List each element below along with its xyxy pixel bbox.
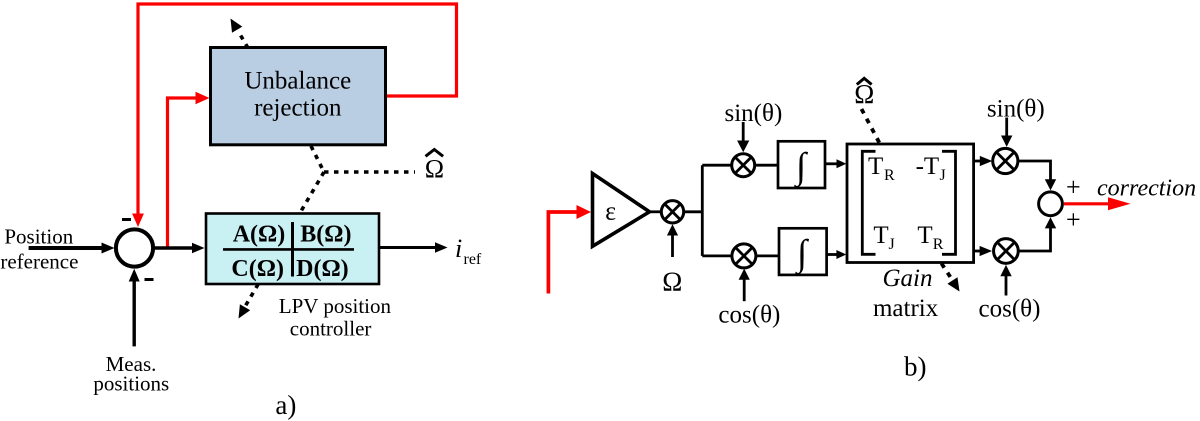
svg-text:Ω: Ω [662,266,682,296]
arrow: gain matrix to M5 [974,250,981,253]
svg-text:Unbalance: Unbalance [244,68,351,95]
red arrowhead into summing junction (down) [132,214,144,228]
arrow: cos(theta) into M3 [743,278,746,301]
wire: red correction output [1064,202,1112,205]
svg-text:sin(θ): sin(θ) [724,100,782,127]
svg-text:rejection: rejection [254,95,342,122]
svg-text:D(Ω): D(Ω) [296,256,349,282]
dashed arrow from unbalance box top (up-left) [238,31,248,48]
svg-text:+: + [1066,173,1081,202]
minus sign at meas input [145,278,154,281]
wire: position reference input [29,246,103,250]
svg-text:R: R [884,167,895,184]
multiplier M5 (cos out) [994,239,1019,264]
svg-text:sin(θ): sin(θ) [987,95,1045,122]
arrow: integrator 2 to gain matrix [827,253,839,256]
svg-text:i: i [455,234,462,263]
svg-text:cos(θ): cos(θ) [718,301,780,328]
svg-text:T: T [873,222,888,249]
multiplier M1 [661,201,683,223]
wire: M5 to summing junction b [1018,226,1050,251]
svg-text:∫: ∫ [793,146,808,188]
wire: M2 to integrator 1 [755,164,778,167]
svg-text:T: T [917,222,932,249]
matrix bracket right [942,151,956,254]
svg-text:R: R [933,236,944,253]
svg-text:ε: ε [605,197,616,226]
svg-text:C(Ω): C(Ω) [231,256,284,282]
arrow: integrator 1 to gain matrix [825,162,839,165]
dashed arrow: omega-hat into gain matrix [862,109,881,144]
multiplier M2 (sin branch) [732,154,755,177]
wire: triangle to multiplier M1 [650,210,662,213]
arrow: sin(theta) into M4 [1005,118,1008,139]
svg-text:cos(θ): cos(θ) [979,296,1041,323]
wire: i_ref output [379,246,436,249]
svg-text:matrix: matrix [873,295,939,322]
arrow: cos(theta) into M5 [1005,272,1008,296]
wire: red tap from error signal up into unbalance input [168,98,197,248]
block: Unbalance rejection [211,48,386,145]
wire: red feedback loop from unbalance output around top to summing junction [138,4,457,215]
svg-text:B(Ω): B(Ω) [300,222,351,248]
summing junction a [116,229,153,266]
multiplier M3 (cos branch) [732,244,756,268]
block: gain matrix [847,144,974,263]
wire: error to LPV controller [153,246,193,249]
svg-text:J: J [940,167,946,184]
svg-text:A(Ω): A(Ω) [233,222,286,248]
svg-text:b): b) [904,352,927,382]
svg-text:positions: positions [93,372,169,396]
svg-text:a): a) [275,390,296,420]
block: integrator 1 [778,141,825,188]
svg-text:-T: -T [916,153,940,180]
svg-text:J: J [889,236,895,253]
wire: M3 to integrator 2 [756,254,779,257]
wire: M4 to summing junction b [1018,161,1051,182]
svg-text:Position: Position [4,225,73,249]
op-amp: epsilon gain triangle [593,174,650,247]
svg-text:controller: controller [290,317,372,341]
svg-text:∫: ∫ [794,233,809,275]
wire: measured positions input (up) [132,280,135,346]
block: LPV position controller [206,214,379,285]
wire: red input (b) [548,212,578,294]
svg-text:T: T [868,153,883,180]
dashed net: Y junction to omega-hat and down through LPV box [311,146,324,172]
arrow: gain matrix to M4 [974,160,981,163]
dashed arrow: gain scheduling output [942,264,952,279]
svg-text:Ω: Ω [425,155,444,184]
svg-text:reference: reference [0,249,78,273]
multiplier M4 (sin out) [993,148,1018,173]
minus sign at red input [122,218,131,221]
wire+arrow: Omega input to M1 [671,234,674,257]
svg-text:+: + [1066,205,1081,234]
red arrowhead into unbalance box (right) [196,92,210,105]
wire: branch node [684,210,703,213]
summing junction b [1039,192,1063,216]
arrow: sin(theta) into M2 [742,122,745,143]
svg-text:LPV position: LPV position [279,294,392,318]
svg-text:correction: correction [1097,176,1196,202]
svg-text:ref: ref [464,251,482,268]
dashed arrowhead down-left below LPV box [239,304,251,318]
block: integrator 2 [779,228,827,275]
svg-text:Gain: Gain [883,265,933,292]
matrix bracket left [862,151,875,254]
